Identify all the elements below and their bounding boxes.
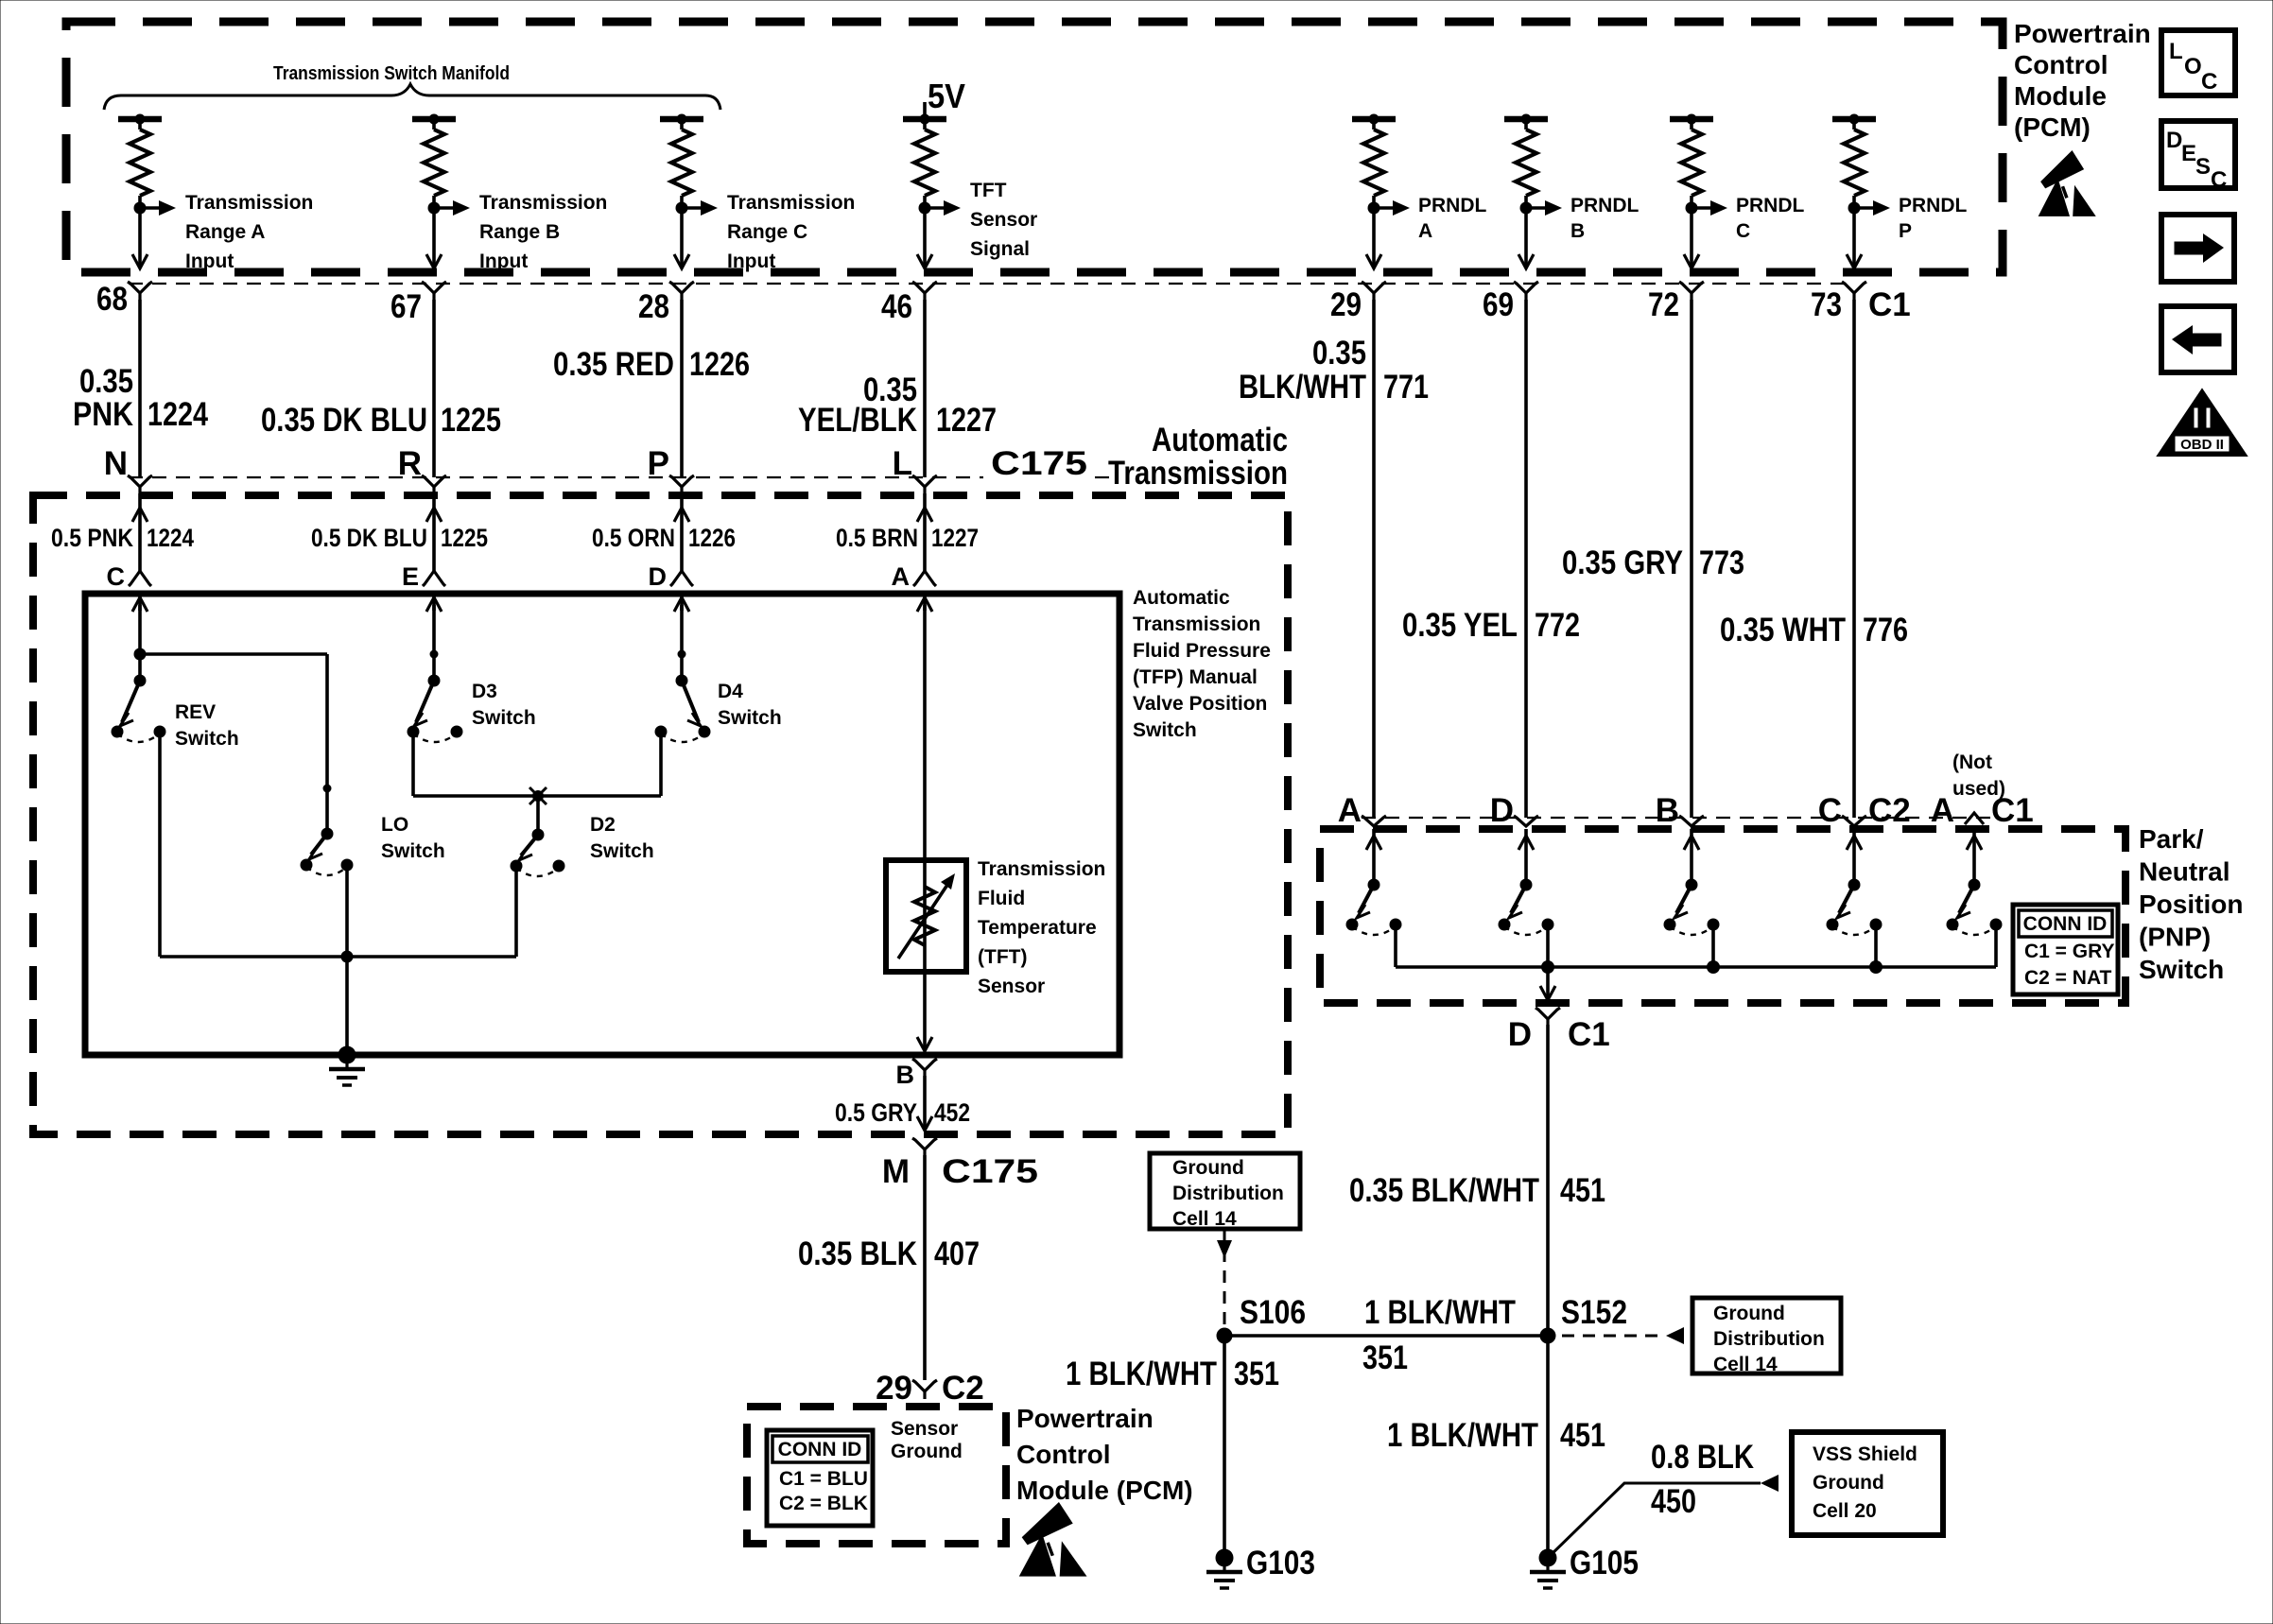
PCM module outline (top) (66, 22, 2003, 272)
wire reference S152 to Ground Distribution (1562, 1335, 1666, 1338)
svg-text:0.35 WHT: 0.35 WHT (1720, 612, 1846, 648)
svg-text:G105: G105 (1570, 1545, 1639, 1581)
svg-text:G103: G103 (1246, 1545, 1315, 1581)
wire 0.5 DK BLU 1225 inside Automatic Transmission (432, 493, 436, 571)
svg-text:REV: REV (175, 701, 216, 723)
svg-text:D: D (1490, 792, 1514, 829)
svg-text:0.5 ORN: 0.5 ORN (592, 524, 675, 552)
svg-text:C2: C2 (1868, 792, 1911, 829)
svg-text:1225: 1225 (441, 402, 501, 439)
svg-text:1 BLK/WHT: 1 BLK/WHT (1066, 1356, 1217, 1392)
PNP switch contact 5 (1972, 829, 1976, 885)
LO switch (321, 828, 334, 840)
wire REV switch output (158, 732, 162, 957)
svg-text:Input: Input (727, 251, 775, 272)
svg-text:1 BLK/WHT: 1 BLK/WHT (1364, 1294, 1516, 1331)
svg-text:S152: S152 (1561, 1294, 1627, 1331)
svg-text:PRNDL: PRNDL (1570, 195, 1640, 216)
svg-text:Control: Control (1016, 1440, 1111, 1469)
svg-text:68: 68 (96, 281, 128, 318)
pin 72 connector C1 (1679, 282, 1704, 293)
PCM module outline (bottom) (747, 1407, 1006, 1544)
svg-text:Distribution: Distribution (1713, 1328, 1825, 1350)
svg-text:0.35 YEL: 0.35 YEL (1402, 607, 1518, 644)
svg-text:CONN ID: CONN ID (2023, 913, 2108, 935)
svg-text:Range C: Range C (727, 221, 807, 243)
resistor Transmission Range B pull-up (412, 116, 456, 123)
svg-text:D: D (649, 562, 668, 591)
svg-text:C1 = BLU: C1 = BLU (779, 1468, 868, 1490)
svg-text:Powertrain: Powertrain (1016, 1404, 1154, 1433)
svg-text:BLK/WHT: BLK/WHT (1239, 369, 1366, 406)
wire PNP contact 3 to bus (1711, 924, 1715, 967)
svg-text:N: N (104, 445, 128, 482)
svg-text:1226: 1226 (689, 346, 750, 383)
svg-text:351: 351 (1362, 1339, 1408, 1376)
wire LO switch output to ground junction (345, 865, 349, 957)
wire RED 1226 from pin 28 to C175 pin P (680, 300, 684, 477)
wire GRY 773 from pin 72 to PNP pin B (1690, 300, 1693, 818)
VSS Shield Ground Cell 20 reference (1792, 1432, 1943, 1535)
PNP switch contact 3 (1690, 829, 1693, 885)
svg-text:1224: 1224 (147, 396, 208, 433)
svg-text:D3: D3 (472, 681, 497, 702)
brace for Transmission Switch Manifold (104, 84, 720, 110)
svg-text:D2: D2 (590, 814, 616, 836)
wire pin D feed to D4 switch (680, 605, 684, 681)
svg-text:451: 451 (1560, 1417, 1605, 1454)
svg-text:E: E (402, 562, 419, 591)
D2 switch (532, 829, 545, 841)
svg-text:Switch: Switch (1133, 719, 1197, 741)
svg-text:5V: 5V (928, 77, 965, 115)
PNP switch outline (1320, 829, 2126, 1003)
svg-text:Sensor: Sensor (891, 1418, 958, 1440)
pin 69 connector C1 (1514, 282, 1538, 293)
wire 0.35 BLK 407 to PCM sensor ground (923, 1155, 927, 1380)
pin 28 connector C1 (669, 282, 694, 293)
svg-text:Ground: Ground (1713, 1303, 1785, 1324)
svg-text:B: B (896, 1061, 915, 1089)
wire 0.5 ORN 1226 inside Automatic Transmission (680, 493, 684, 571)
svg-text:1225: 1225 (441, 524, 488, 552)
resistor PRNDL P pull-up (1832, 116, 1876, 123)
resistor Transmission Range A pull-up (118, 116, 162, 123)
junction D3/D4 outputs (532, 790, 544, 802)
svg-text:Park/: Park/ (2139, 824, 2204, 854)
svg-text:S106: S106 (1240, 1294, 1306, 1331)
svg-text:1227: 1227 (936, 402, 997, 439)
REV switch (134, 675, 147, 687)
wire to D2 switch (536, 796, 540, 835)
svg-text:Transmission: Transmission (1108, 455, 1288, 492)
svg-text:Ground: Ground (1813, 1472, 1884, 1494)
wire YEL 772 from pin 69 to PNP pin D (1524, 300, 1528, 818)
svg-text:O: O (2184, 54, 2202, 79)
wire DK BLU 1225 from pin 67 to C175 pin R (432, 300, 436, 477)
svg-text:0.35: 0.35 (79, 363, 133, 400)
svg-text:Temperature: Temperature (978, 917, 1097, 939)
Automatic Transmission outline (33, 495, 1288, 1134)
svg-text:Transmission: Transmission (1133, 613, 1260, 635)
svg-text:29: 29 (1330, 286, 1362, 323)
svg-text:Distribution: Distribution (1172, 1183, 1284, 1204)
D3 switch (428, 675, 441, 687)
pin D PNP switch (1514, 816, 1538, 826)
wire PNP common bus (1396, 965, 1996, 969)
svg-text:C2 = BLK: C2 = BLK (779, 1493, 868, 1514)
svg-text:450: 450 (1651, 1483, 1696, 1520)
svg-text:P: P (648, 445, 669, 482)
svg-text:46: 46 (881, 288, 912, 325)
svg-text:Cell 20: Cell 20 (1813, 1500, 1877, 1522)
svg-text:771: 771 (1383, 369, 1429, 406)
svg-text:Transmission Switch Manifold: Transmission Switch Manifold (273, 63, 510, 84)
pin R connector C175 (422, 475, 446, 487)
icon OBD II (2160, 391, 2245, 455)
svg-text:L: L (2169, 39, 2183, 64)
svg-text:Fluid Pressure: Fluid Pressure (1133, 640, 1271, 662)
svg-text:Input: Input (185, 251, 234, 272)
svg-text:C2: C2 (942, 1370, 984, 1407)
svg-text:S: S (2195, 154, 2211, 180)
svg-text:A: A (892, 562, 911, 591)
svg-text:1224: 1224 (147, 524, 194, 552)
svg-text:C: C (2211, 167, 2227, 193)
svg-text:LO: LO (381, 814, 408, 836)
ground G105 (1539, 1549, 1557, 1567)
svg-text:Switch: Switch (718, 707, 782, 729)
svg-text:Sensor: Sensor (978, 976, 1045, 997)
svg-text:PNK: PNK (73, 396, 133, 433)
wire D3 switch output (411, 732, 415, 796)
pin A PNP switch (1362, 816, 1386, 826)
wire 0.5 BRN 1227 inside Automatic Transmission (923, 493, 927, 571)
svg-text:29: 29 (876, 1370, 912, 1407)
ground G103 (1216, 1549, 1234, 1567)
svg-text:772: 772 (1535, 607, 1580, 644)
svg-text:C: C (107, 562, 126, 591)
svg-text:C1: C1 (1868, 286, 1911, 323)
pin D connector C1 (PNP) (1536, 1008, 1560, 1019)
Ground Distribution Cell 14 reference (right) (1692, 1298, 1841, 1373)
svg-text:L: L (893, 445, 912, 482)
svg-text:VSS Shield: VSS Shield (1813, 1443, 1917, 1465)
wire PNP contact 1 to bus (1394, 924, 1397, 967)
svg-text:452: 452 (934, 1098, 970, 1127)
svg-text:C1: C1 (1568, 1016, 1610, 1053)
pin L connector C175 (912, 475, 937, 487)
wire reference drop to S106 (1217, 1240, 1232, 1258)
svg-text:776: 776 (1863, 612, 1908, 648)
svg-text:Cell 14: Cell 14 (1713, 1354, 1778, 1375)
pin P connector C175 (669, 475, 694, 487)
svg-text:0.35 GRY: 0.35 GRY (1562, 544, 1683, 581)
icon LOC (2161, 30, 2235, 95)
svg-text:A: A (1338, 792, 1362, 829)
pin B TFP switch (912, 1059, 937, 1070)
svg-text:Transmission: Transmission (185, 192, 313, 214)
svg-text:C175: C175 (942, 1153, 1038, 1190)
wire TFT sensor to pin B (923, 605, 927, 1051)
pin M connector C175 (912, 1138, 937, 1149)
connector line C175 (129, 476, 983, 478)
svg-text:A: A (1931, 792, 1954, 829)
svg-text:Module: Module (2014, 81, 2107, 111)
svg-text:Switch: Switch (2139, 955, 2224, 984)
svg-text:0.5 GRY: 0.5 GRY (835, 1098, 917, 1127)
svg-text:C: C (2201, 69, 2217, 95)
pin C PNP switch (1842, 816, 1866, 826)
svg-text:Automatic: Automatic (1152, 422, 1288, 458)
wire 0.35 BLK/WHT 451 to S152 (1546, 1025, 1550, 1336)
PNP switch contact 2 (1524, 829, 1528, 885)
svg-text:B: B (1656, 792, 1679, 829)
wire PNK 1224 from pin 68 to C175 pin N (138, 300, 142, 477)
svg-text:Switch: Switch (472, 707, 536, 729)
PCM connector line C1 (129, 283, 1844, 285)
resistor PRNDL C pull-up (1670, 116, 1713, 123)
svg-text:(PNP): (PNP) (2139, 923, 2211, 952)
resistor TFT sensor pull-up with 5V supply (903, 116, 946, 123)
svg-text:Powertrain: Powertrain (2014, 19, 2151, 48)
svg-text:YEL/BLK: YEL/BLK (798, 402, 917, 439)
svg-text:Switch: Switch (590, 840, 654, 862)
svg-text:(Not: (Not (1952, 752, 1992, 773)
svg-text:451: 451 (1560, 1172, 1605, 1209)
wire PNP contact 5 to bus (1994, 924, 1998, 967)
CONN ID table (PNP) (2013, 905, 2118, 994)
svg-text:0.35 RED: 0.35 RED (553, 346, 674, 383)
ESD symbol (PCM top) (2040, 150, 2084, 188)
pin 29 connector C2 (912, 1380, 937, 1391)
svg-text:D4: D4 (718, 681, 743, 702)
svg-text:1226: 1226 (688, 524, 736, 552)
wire to case ground (345, 957, 349, 1055)
svg-text:Sensor: Sensor (970, 209, 1037, 231)
svg-text:0.35 BLK/WHT: 0.35 BLK/WHT (1349, 1172, 1539, 1209)
svg-text:E: E (2181, 141, 2196, 166)
svg-text:69: 69 (1483, 286, 1514, 323)
svg-text:Neutral: Neutral (2139, 857, 2230, 887)
wire 0.8 BLK 450 shield drain (1548, 1483, 1761, 1558)
svg-text:Input: Input (479, 251, 528, 272)
svg-text:0.35: 0.35 (1312, 335, 1366, 371)
svg-text:Range B: Range B (479, 221, 560, 243)
svg-text:1 BLK/WHT: 1 BLK/WHT (1387, 1417, 1538, 1454)
svg-text:0.5 DK BLU: 0.5 DK BLU (311, 524, 427, 552)
svg-text:Transmission: Transmission (479, 192, 607, 214)
icon forward arrow (2161, 215, 2234, 282)
pin 29 connector C1 (1362, 282, 1386, 293)
ESD symbol (PCM bottom) (1022, 1502, 1073, 1545)
svg-text:0.5 BRN: 0.5 BRN (836, 524, 918, 552)
wire D4 switch output (659, 732, 663, 796)
resistor Transmission Range C pull-up (660, 116, 703, 123)
svg-text:Valve Position: Valve Position (1133, 693, 1267, 715)
Ground Distribution Cell 14 reference (upper) (1150, 1153, 1300, 1229)
svg-text:D: D (1508, 1016, 1532, 1053)
svg-text:Signal: Signal (970, 238, 1030, 260)
svg-text:R: R (398, 445, 422, 482)
svg-text:(PCM): (PCM) (2014, 112, 2091, 142)
svg-text:(TFP) Manual: (TFP) Manual (1133, 666, 1258, 688)
pin B PNP switch (1679, 816, 1704, 826)
pin N connector C175 (128, 475, 152, 487)
PNP switch contact 4 (1852, 829, 1856, 885)
wire pin E feed to D3 switch (432, 605, 436, 681)
svg-text:1227: 1227 (931, 524, 979, 552)
svg-text:72: 72 (1648, 286, 1679, 323)
svg-text:used): used) (1952, 778, 2005, 800)
svg-text:PRNDL: PRNDL (1736, 195, 1805, 216)
CONN ID table (PCM) (767, 1430, 873, 1526)
wire PNP output pin D (1546, 967, 1550, 998)
svg-text:Cell 14: Cell 14 (1172, 1208, 1237, 1230)
svg-text:TFT: TFT (970, 180, 1007, 201)
wire branch to LO switch (140, 652, 327, 656)
pin 46 connector C1 (912, 282, 937, 293)
svg-text:C2 = NAT: C2 = NAT (2024, 967, 2112, 989)
svg-text:Control: Control (2014, 50, 2108, 79)
wire 0.5 GRY 452 (923, 1076, 927, 1129)
svg-text:Transmission: Transmission (727, 192, 855, 214)
splice S106 (1217, 1328, 1233, 1344)
pin 67 connector C1 (422, 282, 446, 293)
wire BLK/WHT 771 from pin 29 to PNP pin A (1372, 300, 1376, 818)
svg-text:C: C (1736, 220, 1750, 242)
svg-text:773: 773 (1699, 544, 1744, 581)
resistor PRNDL B pull-up (1504, 116, 1548, 123)
svg-text:Fluid: Fluid (978, 888, 1025, 909)
wire S106 to G103 (1223, 1336, 1226, 1558)
svg-text:Range A: Range A (185, 221, 265, 243)
wire YEL/BLK 1227 from pin 46 to C175 pin L (923, 300, 927, 477)
wire WHT 776 from pin 73 to PNP pin C (1852, 300, 1856, 818)
svg-text:0.8 BLK: 0.8 BLK (1651, 1439, 1754, 1476)
svg-text:Switch: Switch (175, 728, 239, 750)
icon DESC (2161, 121, 2235, 188)
svg-text:Ground: Ground (891, 1441, 963, 1462)
svg-text:CONN ID: CONN ID (778, 1439, 862, 1460)
svg-text:B: B (1570, 220, 1585, 242)
svg-text:C1 = GRY: C1 = GRY (2024, 941, 2115, 962)
icon back arrow (2161, 306, 2234, 372)
splice S152 (1540, 1328, 1556, 1344)
wire 1 BLK/WHT 351 S106 to S152 (1224, 1334, 1548, 1338)
svg-text:M: M (882, 1153, 910, 1190)
svg-text:C: C (1818, 792, 1842, 829)
svg-text:Transmission: Transmission (978, 858, 1105, 880)
pin A C1 (not used) (1965, 813, 1984, 824)
svg-text:0.35 BLK: 0.35 BLK (798, 1235, 917, 1272)
TFP manual valve position switch outline (85, 594, 1119, 1055)
svg-text:407: 407 (934, 1235, 980, 1272)
svg-text:67: 67 (390, 288, 422, 325)
wire PNP contact 4 to bus (1874, 924, 1878, 967)
svg-text:0.35 DK BLU: 0.35 DK BLU (261, 402, 427, 439)
svg-text:Position: Position (2139, 890, 2243, 919)
resistor PRNDL A pull-up (1352, 116, 1396, 123)
svg-text:PRNDL: PRNDL (1418, 195, 1487, 216)
svg-text:73: 73 (1811, 286, 1842, 323)
svg-text:(TFT): (TFT) (978, 946, 1027, 968)
pin 73 connector C1 (1842, 282, 1866, 293)
wire pin C feed to REV switch (138, 605, 142, 681)
svg-text:A: A (1418, 220, 1432, 242)
wire PNP contact 2 to bus (1546, 924, 1550, 967)
svg-text:OBD II: OBD II (2180, 437, 2224, 453)
svg-text:28: 28 (638, 288, 669, 325)
svg-text:D: D (2166, 128, 2182, 153)
wire D2 switch output (514, 866, 518, 957)
svg-text:P: P (1899, 220, 1912, 242)
PNP switch contact 1 (1372, 829, 1376, 885)
svg-text:C175: C175 (991, 445, 1087, 482)
svg-text:PRNDL: PRNDL (1899, 195, 1968, 216)
junction ground tap (341, 951, 354, 963)
D4 switch (676, 675, 688, 687)
pin 68 connector C1 (128, 282, 152, 293)
wire 1 BLK/WHT 451 S152 to G105 (1546, 1336, 1550, 1558)
PNP switch connector line (1362, 817, 1995, 819)
wire 0.5 PNK 1224 inside Automatic Transmission (138, 493, 142, 571)
ground (TFP case) (338, 1046, 356, 1064)
svg-text:0.5 PNK: 0.5 PNK (51, 524, 133, 552)
svg-text:Automatic: Automatic (1133, 587, 1230, 609)
svg-text:Ground: Ground (1172, 1157, 1244, 1179)
svg-text:Switch: Switch (381, 840, 445, 862)
TFT sensor (thermistor) (886, 860, 966, 972)
svg-text:Module (PCM): Module (PCM) (1016, 1476, 1193, 1505)
svg-text:351: 351 (1234, 1356, 1279, 1392)
wire switch common bus (160, 955, 516, 959)
